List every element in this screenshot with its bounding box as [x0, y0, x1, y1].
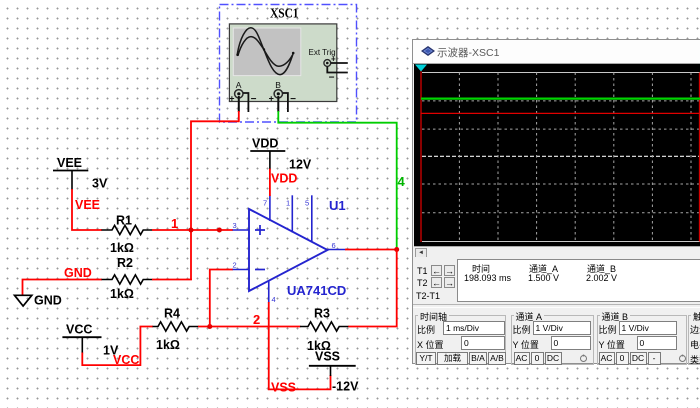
Ext Trig terminal [309, 48, 348, 84]
resistor R2 [102, 256, 153, 301]
svg-text:1: 1 [286, 199, 290, 208]
svg-text:VSS: VSS [271, 381, 296, 395]
junction output node [394, 247, 399, 252]
wire GND to R2 [23, 280, 103, 296]
svg-text:1kΩ: 1kΩ [156, 338, 180, 352]
junction at node2 [207, 324, 212, 329]
wire B black stub [277, 96, 279, 112]
wire VEE to R1 [72, 189, 102, 230]
svg-text:VEE: VEE [57, 156, 82, 170]
T1 controls [417, 266, 428, 276]
readout box [457, 259, 700, 302]
svg-text:2: 2 [253, 312, 260, 327]
svg-text:4: 4 [398, 174, 406, 189]
terminal B [269, 80, 297, 112]
trace channel A (green) [421, 97, 700, 99]
svg-text:GND: GND [64, 266, 92, 280]
svg-text:−: − [251, 94, 257, 105]
pin 1 lead [291, 195, 293, 232]
pin 5 lead [311, 195, 313, 242]
scrollbar [414, 246, 700, 257]
svg-text:VCC: VCC [66, 323, 92, 337]
op-amp U1 triangle [249, 209, 328, 291]
trigger group 触发 (cut off) [688, 315, 700, 365]
svg-text:−: − [329, 73, 335, 84]
svg-text:R2: R2 [117, 256, 133, 270]
wire R1 to op-amp pin3 [152, 229, 233, 231]
svg-text:4: 4 [272, 295, 276, 304]
svg-text:VEE: VEE [75, 198, 100, 212]
svg-text:1: 1 [171, 216, 178, 231]
selection box around XSC1 [220, 5, 357, 123]
measurement panel [413, 257, 700, 302]
separator line [413, 304, 700, 308]
ground symbol GND [15, 294, 62, 308]
right cursor line [699, 73, 700, 242]
svg-text:GND: GND [34, 294, 62, 308]
svg-text:6: 6 [332, 241, 336, 250]
wire node2 row R4 to R3 [198, 326, 301, 328]
terminal A [229, 80, 256, 112]
svg-text:+: + [269, 93, 274, 103]
wire VCC to R4 [82, 327, 153, 366]
pin 4 lead [268, 281, 270, 303]
center axis [422, 155, 700, 157]
svg-text:R3: R3 [314, 307, 330, 321]
graticule [422, 73, 700, 242]
svg-text:+: + [229, 93, 234, 103]
pin 2 lead [233, 269, 250, 271]
pin 7 lead [269, 195, 271, 221]
T1 cursor handle [415, 65, 427, 72]
svg-text:A: A [236, 80, 242, 90]
svg-text:UA741CD: UA741CD [287, 283, 346, 298]
junction dot near pin3 [217, 228, 222, 233]
title bar [413, 40, 700, 64]
T1 cursor line [420, 66, 422, 242]
wire R2 to net1 column [152, 279, 192, 281]
VEE rail symbol [53, 156, 108, 191]
svg-text:U1: U1 [329, 198, 346, 213]
svg-text:5: 5 [305, 199, 309, 208]
timebase group 时间轴 [415, 315, 506, 365]
svg-text:VDD: VDD [271, 172, 297, 186]
scope screen [414, 64, 700, 246]
wire output down to R3 [348, 250, 397, 327]
svg-text:VSS: VSS [315, 350, 340, 364]
svg-text:1kΩ: 1kΩ [110, 241, 134, 255]
VDD rail symbol [250, 137, 312, 172]
svg-text:B: B [275, 80, 281, 90]
svg-text:3: 3 [233, 221, 237, 230]
oscilloscope window 示波器-XSC1 [412, 39, 700, 364]
channel B group 通道B [597, 315, 687, 365]
svg-text:XSC1: XSC1 [270, 7, 299, 22]
junction at net1 column [189, 228, 194, 233]
wire node2 up to pin2 [210, 270, 233, 327]
pin 3 lead [233, 229, 250, 231]
svg-text:2: 2 [233, 261, 237, 270]
svg-text:7: 7 [263, 199, 267, 208]
resistor R3 [300, 307, 348, 354]
svg-text:R4: R4 [164, 307, 180, 321]
T2-T1 [416, 291, 440, 301]
svg-text:12V: 12V [289, 158, 312, 172]
svg-text:-12V: -12V [332, 380, 359, 394]
wire A black stub [238, 96, 240, 112]
pin 6 lead [328, 249, 346, 251]
svg-text:+: + [331, 55, 336, 64]
svg-text:−: − [290, 94, 296, 105]
channel A group 通道A [511, 315, 594, 365]
resistor R1 [102, 214, 153, 256]
T2 controls [417, 278, 428, 288]
trace channel B (red) [421, 112, 700, 114]
wire net1: A terminal to R1/pin3 row [191, 111, 239, 280]
svg-text:VDD: VDD [252, 137, 278, 151]
wire B to output node (green net 4) [278, 111, 396, 250]
wire VDD to pin7 [269, 169, 271, 196]
wire pin4 to VSS [269, 302, 331, 389]
resistor R4 [153, 307, 199, 353]
VCC rail symbol [62, 323, 119, 358]
svg-text:3V: 3V [92, 177, 108, 191]
svg-text:R1: R1 [116, 214, 132, 228]
window icon [419, 43, 437, 59]
wire pin6 output to node4 [345, 249, 397, 251]
VSS rail symbol [309, 350, 359, 394]
svg-text:1kΩ: 1kΩ [110, 287, 134, 301]
oscilloscope XSC1 body [229, 24, 336, 102]
